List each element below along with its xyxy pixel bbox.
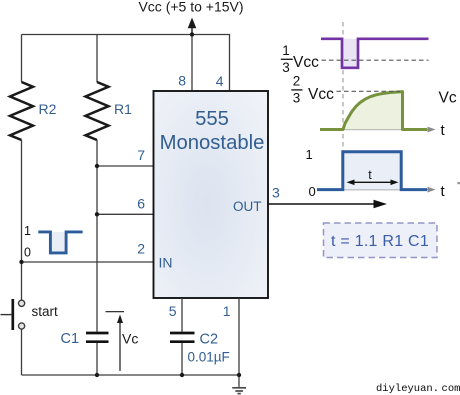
resistor R2 — [10, 82, 33, 140]
node stray tick — [457, 182, 460, 184]
svg-text:1: 1 — [223, 303, 231, 319]
wire R1 column upper — [96, 35, 98, 83]
node vertical dashed timeline — [342, 22, 344, 152]
svg-text:t: t — [441, 122, 446, 139]
output pulse waveform blue — [317, 152, 427, 190]
junction dot C2 bottom — [180, 373, 184, 377]
wire OUT arrow — [269, 200, 388, 209]
node Vc time axis — [336, 127, 436, 133]
svg-text:3: 3 — [272, 185, 280, 201]
wire pin5 lower — [181, 343, 183, 375]
svg-text:R2: R2 — [39, 101, 57, 117]
svg-text:1: 1 — [306, 147, 313, 162]
svg-text:start: start — [32, 304, 59, 319]
svg-text:R1: R1 — [114, 101, 132, 117]
wire R1 column mid — [96, 140, 98, 332]
svg-text:Vc: Vc — [122, 331, 138, 347]
wire bottom rail — [22, 374, 240, 376]
wire pin4 drop — [229, 34, 231, 92]
svg-text:Vcc: Vcc — [308, 86, 334, 103]
output pulse fill — [343, 152, 401, 190]
wire pin7 — [97, 165, 154, 167]
junction dot Vcc rail — [190, 32, 194, 36]
svg-text:7: 7 — [137, 147, 145, 163]
junction dot pin2 — [19, 260, 23, 264]
node 2/3 Vcc dashed level — [337, 90, 401, 92]
node pulse width t arrow — [347, 180, 399, 186]
op-amp U1 555 body — [154, 91, 269, 298]
wire left rail upper — [21, 35, 23, 83]
resistor R1 — [86, 82, 109, 140]
svg-text:t: t — [441, 183, 446, 200]
junction dot C1 bottom — [95, 373, 99, 377]
wire left rail mid — [21, 140, 23, 300]
svg-text:Vcc (+5 to +15V): Vcc (+5 to +15V) — [138, 0, 243, 15]
wire pin6 — [97, 213, 154, 215]
svg-text:2: 2 — [137, 241, 145, 257]
svg-text:Vc: Vc — [439, 90, 457, 107]
node 1/3 Vcc dashed level — [322, 59, 429, 61]
junction dot pin6 — [95, 212, 99, 216]
svg-text:t: t — [368, 168, 372, 182]
svg-text:1: 1 — [24, 224, 31, 238]
svg-text:6: 6 — [137, 196, 145, 212]
svg-text:IN: IN — [159, 255, 173, 271]
svg-text:0.01µF: 0.01µF — [188, 350, 230, 365]
wire left rail lower — [21, 329, 23, 375]
wire pin8 drop — [191, 35, 193, 92]
svg-text:8: 8 — [178, 73, 186, 89]
svg-text:1: 1 — [282, 43, 290, 58]
svg-text:0: 0 — [309, 184, 316, 199]
capacitor C1 — [86, 333, 109, 342]
svg-text:4: 4 — [216, 73, 224, 89]
svg-text:555: 555 — [195, 108, 229, 130]
wire R1 column lower — [96, 343, 98, 375]
trigger input waveform purple — [321, 39, 429, 68]
junction dot pin7 — [95, 164, 99, 168]
Vc arrow — [106, 312, 125, 371]
trigger waveform fill — [342, 39, 358, 68]
svg-text:t = 1.1 R1 C1: t = 1.1 R1 C1 — [331, 233, 429, 250]
svg-text:3: 3 — [293, 91, 301, 106]
capacitor C2 — [170, 333, 195, 342]
svg-text:3: 3 — [282, 60, 290, 75]
label 1/3 Vcc — [281, 43, 319, 75]
svg-text:5: 5 — [169, 303, 177, 319]
wire Vcc top rail — [22, 34, 230, 36]
wire pin1 — [238, 298, 240, 387]
node OUT time axis — [336, 187, 436, 193]
wire pin2 — [22, 261, 154, 263]
junction dot ground — [237, 373, 241, 377]
trigger pulse waveform — [38, 232, 82, 253]
svg-text:C1: C1 — [61, 331, 80, 347]
svg-text:Vcc: Vcc — [293, 54, 319, 71]
svg-text:2: 2 — [293, 74, 301, 89]
svg-text:OUT: OUT — [233, 199, 262, 214]
label 2/3 Vcc — [291, 74, 334, 106]
svg-text:Monostable: Monostable — [160, 132, 265, 154]
wire pin5 upper — [181, 298, 183, 332]
capacitor charge fill — [343, 92, 403, 130]
pushbutton start — [1, 299, 25, 330]
trigger pulse fill — [50, 232, 66, 253]
formula box — [324, 223, 438, 258]
ground — [232, 388, 246, 394]
capacitor charge waveform olive — [320, 92, 427, 130]
svg-text:C2: C2 — [200, 332, 219, 348]
Vcc supply arrow — [188, 18, 197, 35]
svg-text:0: 0 — [24, 246, 31, 260]
svg-text:diyleyuan.com: diyleyuan.com — [376, 383, 460, 395]
